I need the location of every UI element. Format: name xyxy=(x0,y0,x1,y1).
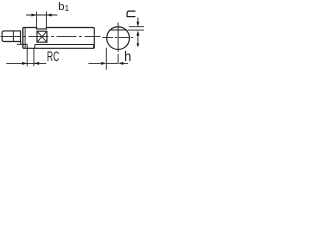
end view chord flat line xyxy=(109,29,127,31)
dimension small down arrow at tail end xyxy=(137,43,140,47)
dimension RC line xyxy=(6,62,46,64)
dimension b1 arrow left-pointing xyxy=(46,14,51,17)
crossed square diagonal 1 xyxy=(37,31,47,42)
stub body (left small cylinder) xyxy=(2,31,20,42)
dimension RC arrow left-pointing xyxy=(34,62,39,65)
end view circle xyxy=(107,27,130,50)
inner flat line left segment xyxy=(17,43,27,45)
crossed square flat marker xyxy=(37,31,47,42)
dimension h top line lower with up arrow and tail xyxy=(137,36,139,44)
inner flat line right segment xyxy=(35,44,94,46)
dimension h bottom line left tail xyxy=(88,62,101,64)
dimension h bottom arrow left-pointing xyxy=(118,62,123,65)
dimension RC extension line left xyxy=(26,48,28,66)
crossed square diagonal 2 xyxy=(37,31,47,42)
body left face xyxy=(22,28,24,47)
dimension h top extension line lower xyxy=(128,29,145,31)
dimension h bottom line right tail xyxy=(123,62,128,64)
stub divider line xyxy=(12,31,14,42)
end view vertical centerline xyxy=(117,23,119,64)
dimension b1 line xyxy=(26,14,57,16)
stub lower hook step xyxy=(20,42,22,45)
body left chamfer line xyxy=(24,28,26,48)
flat step vertical left xyxy=(26,44,28,48)
flat step vertical at right end xyxy=(93,45,95,49)
dimension RC extension line right xyxy=(33,49,35,67)
dimension RC arrow right-pointing xyxy=(22,62,27,65)
dimension b1 extension line left xyxy=(36,12,38,29)
dimension b1 arrow right-pointing xyxy=(31,14,36,17)
flat step vertical right xyxy=(34,45,36,49)
dimension h top line upper with down arrow xyxy=(137,18,139,23)
dimension b1 extension line right xyxy=(45,12,47,29)
dimension h bottom extension line (circle left tangent) xyxy=(105,48,107,70)
label h rotated (top right) xyxy=(127,11,136,17)
svg-text:h: h xyxy=(124,49,131,64)
svg-text:b1: b1 xyxy=(58,1,70,13)
end view horizontal centerline xyxy=(103,36,134,38)
body outline top with groove xyxy=(23,28,94,49)
svg-text:RC: RC xyxy=(47,49,59,65)
dimension h bottom line middle xyxy=(106,62,118,64)
dimension h top extension line upper xyxy=(129,26,144,28)
centerline main axis xyxy=(1,36,101,38)
dimension h bottom arrow right-pointing xyxy=(101,62,106,65)
